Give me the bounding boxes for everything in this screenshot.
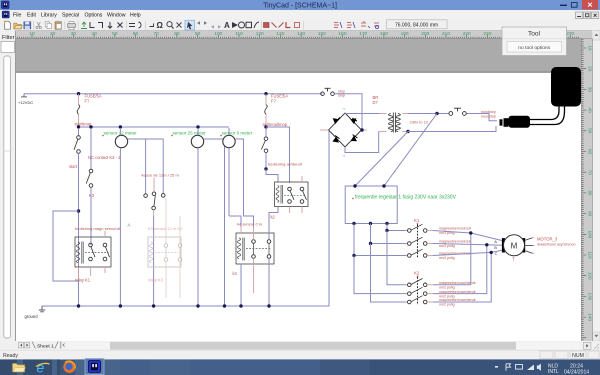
node k2 coil junction — [264, 167, 267, 170]
wire relay K1 coil loop — [53, 211, 79, 281]
fuse F? (left) — [77, 93, 102, 126]
switch K3 column — [86, 128, 95, 245]
wire bridge bottom loop to transformer — [345, 132, 379, 153]
svg-text:k4 sensor 0 m: k4 sensor 0 m — [237, 222, 263, 227]
stop push button — [321, 88, 345, 97]
taskbar — [0, 359, 600, 375]
svg-text:k2: k2 — [271, 215, 276, 220]
svg-text:+12VDC: +12VDC — [18, 100, 33, 105]
svg-text:Ω: Ω — [157, 21, 164, 30]
explorer icon — [13, 364, 25, 372]
svg-text:startknop: startknop — [75, 122, 93, 127]
wire noodstop to plug — [467, 114, 497, 121]
K1 contact row 1 — [406, 224, 471, 235]
svg-text:FUSE/5A: FUSE/5A — [85, 93, 102, 98]
svg-text:Help: Help — [130, 12, 141, 18]
wire column to K1 row1 — [387, 224, 406, 231]
svg-text:MOTOR_3: MOTOR_3 — [537, 236, 558, 241]
svg-text:10: 10 — [588, 45, 593, 51]
svg-text:Filter: Filter — [2, 35, 15, 41]
svg-text:60: 60 — [588, 149, 593, 155]
svg-text:70: 70 — [588, 170, 593, 176]
svg-text:FUSE/5A: FUSE/5A — [271, 93, 288, 98]
noodstop push button — [449, 108, 496, 118]
svg-text:76.000, 84.000 mm: 76.000, 84.000 mm — [395, 22, 438, 28]
sensor 12 meter — [102, 128, 163, 306]
cut — [37, 22, 40, 27]
vertical ruler — [581, 39, 593, 342]
svg-text:INTL: INTL — [548, 369, 559, 375]
wire top rail — [24, 93, 323, 95]
wire transformer to noodstop — [408, 113, 449, 115]
svg-text:TinyCad - [SCHEMA~1]: TinyCad - [SCHEMA~1] — [263, 3, 337, 10]
library icons — [334, 21, 379, 29]
svg-text:110: 110 — [588, 251, 593, 259]
node fuse2 top — [264, 92, 267, 95]
toolbar — [0, 20, 600, 31]
svg-text:M: M — [511, 241, 518, 250]
svg-text:NUM: NUM — [572, 353, 584, 359]
svg-text:om3 polig: om3 polig — [439, 244, 455, 248]
svg-text:K1: K1 — [414, 218, 420, 223]
svg-text:90: 90 — [588, 211, 593, 217]
node relay loop junction — [77, 209, 80, 212]
svg-text:C: C — [495, 251, 498, 256]
node achteruit junction — [264, 125, 267, 128]
svg-text:keuze de 12m / 25 m: keuze de 12m / 25 m — [142, 172, 180, 177]
ground bus — [42, 130, 329, 308]
sensor 25 meter — [171, 128, 224, 306]
open — [14, 23, 22, 29]
contactor K1 — [414, 218, 420, 259]
node secondary top — [435, 112, 438, 115]
switch achteruit — [261, 128, 268, 169]
svg-text:frequentie regelaar 1 fasig 23: frequentie regelaar 1 fasig 230V naar 3x… — [355, 194, 457, 200]
svg-text:50: 50 — [588, 128, 593, 134]
svg-text:om3 polig: om3 polig — [439, 256, 455, 260]
relay K1 — [75, 226, 121, 283]
wire branch to relay k2 right pin — [266, 127, 290, 183]
vertical scrollbar — [593, 31, 600, 342]
svg-text:130: 130 — [588, 293, 593, 301]
node secondary bottom — [406, 130, 409, 133]
svg-text:k4: k4 — [233, 271, 238, 276]
motor MOTOR_3 — [494, 235, 575, 262]
svg-text:A: A — [128, 223, 131, 228]
print — [68, 24, 76, 28]
node motor feed junctions — [469, 231, 472, 234]
svg-text:File: File — [13, 12, 21, 18]
frequentie regelaar box — [345, 184, 456, 225]
tray icons — [495, 366, 498, 368]
power adapter block — [551, 67, 581, 107]
svg-text:~: ~ — [343, 155, 346, 160]
Tool options floating panel — [502, 27, 567, 56]
svg-text:40: 40 — [588, 108, 593, 114]
svg-text:F?: F? — [271, 99, 277, 104]
svg-text:Window: Window — [107, 12, 126, 18]
svg-text:D?: D? — [373, 100, 379, 105]
node rail2 junctions — [77, 125, 80, 128]
svg-text:bediening magn servo/uit: bediening magn servo/uit — [75, 226, 121, 231]
title bar — [0, 0, 600, 10]
ground symbol — [25, 306, 46, 319]
wire column to K1 row2 — [371, 224, 407, 244]
relay K4 — [233, 222, 275, 306]
svg-text:sensor 0 meter: sensor 0 meter — [222, 130, 253, 135]
svg-text:20: 20 — [588, 66, 593, 72]
svg-text:noodstop: noodstop — [481, 114, 496, 118]
svg-text:magneetservocircuit: magneetservocircuit — [439, 227, 471, 231]
selected cursor tool — [185, 20, 195, 30]
svg-text:100: 100 — [588, 230, 593, 238]
wire bridge top to transformer — [345, 113, 379, 115]
left panel — [0, 31, 16, 342]
switch start (upper) — [74, 128, 80, 153]
svg-text:e: e — [37, 360, 45, 375]
svg-text:ground: ground — [25, 314, 39, 319]
wire stop to bridge — [334, 94, 362, 130]
svg-text:magneetservocircuit: magneetservocircuit — [439, 240, 471, 244]
save — [24, 22, 31, 29]
svg-text:Ready: Ready — [3, 353, 18, 359]
svg-text:Tool: Tool — [528, 31, 541, 38]
menu bar — [0, 10, 600, 20]
svg-text:230v to 12: 230v to 12 — [410, 120, 429, 125]
bridge rectifier BR — [320, 95, 378, 160]
svg-text:NC contact K3 - 1: NC contact K3 - 1 — [88, 155, 121, 160]
node K1 column branches — [385, 229, 388, 232]
wire diagonal A — [384, 114, 437, 187]
wire diagonal B — [355, 132, 408, 187]
relay K3 ghost — [148, 198, 183, 298]
wire tool — [90, 22, 95, 28]
svg-text:relay K3: relay K3 — [148, 278, 164, 283]
K1 contact row 3 — [406, 249, 471, 260]
svg-text:K2: K2 — [414, 271, 420, 276]
firefox icon — [63, 361, 75, 373]
svg-text:K3 sensor 12 m NC: K3 sensor 12 m NC — [148, 226, 183, 231]
svg-text:140: 140 — [588, 313, 593, 321]
K2 contact row 3 — [406, 296, 476, 307]
arrow down tool — [108, 22, 112, 28]
power symbol +12VDC — [18, 94, 33, 105]
svg-text:Special: Special — [62, 12, 79, 18]
svg-text:~: ~ — [343, 108, 346, 113]
svg-text:80: 80 — [588, 190, 593, 196]
svg-text:Sheet 1: Sheet 1 — [37, 343, 54, 349]
contactor K2 — [414, 271, 420, 306]
svg-text:30: 30 — [588, 87, 593, 93]
svg-text:Options: Options — [85, 12, 103, 18]
svg-text:F?: F? — [85, 99, 91, 104]
status bar — [0, 350, 600, 360]
sensor 0 meter — [220, 128, 253, 227]
wire into k2 coil — [266, 169, 278, 182]
K2 contact row 1 — [406, 279, 476, 290]
svg-text:start: start — [69, 164, 78, 169]
wire column to K1 row3 — [354, 224, 406, 256]
K1 contact row 2 — [406, 237, 471, 248]
fuse F? (achteruit) — [265, 93, 289, 126]
cable to adapter — [530, 107, 559, 120]
keuze selector — [142, 172, 180, 306]
copy — [45, 22, 49, 27]
wire rail 2 — [79, 126, 230, 128]
node fuse1 top — [77, 92, 80, 95]
svg-text:no tool options: no tool options — [518, 45, 550, 51]
svg-text:draaistroom asynchroon: draaistroom asynchroon — [537, 243, 576, 247]
svg-text:bediening achteruit: bediening achteruit — [268, 162, 303, 167]
svg-text:B: B — [494, 245, 497, 250]
svg-text:sensor 25 meter: sensor 25 meter — [173, 130, 207, 135]
svg-text:om2 polig: om2 polig — [439, 303, 455, 307]
wire return from plug — [408, 126, 496, 132]
power plug connector — [500, 116, 531, 128]
svg-text:Edit: Edit — [27, 12, 36, 18]
canvas background — [16, 39, 581, 342]
wire K1 outputs to motor — [433, 231, 502, 303]
svg-text:K3: K3 — [89, 193, 95, 198]
tinycad icon highlighted — [85, 359, 104, 375]
drawing sheet — [16, 73, 581, 342]
transformer 230v to 12 — [379, 113, 429, 133]
svg-text:120: 120 — [588, 272, 593, 280]
K2 contact row 2 — [406, 287, 476, 298]
wire k2 coil to bus — [269, 207, 278, 240]
svg-text:Library: Library — [41, 12, 57, 18]
zoom-extent icon — [81, 22, 87, 29]
relay K2 — [271, 176, 309, 220]
horizontal ruler — [16, 31, 592, 39]
svg-text:A: A — [224, 21, 230, 30]
svg-text:relay K1: relay K1 — [75, 278, 91, 283]
paste — [55, 22, 61, 29]
sheet tab + horizontal scrollbar row — [0, 341, 600, 351]
svg-text:T: T — [512, 257, 515, 262]
svg-text:04/24/2014: 04/24/2014 — [564, 369, 589, 375]
svg-text:A: A — [494, 239, 497, 244]
switch start (lower) — [78, 153, 80, 306]
new — [5, 21, 11, 29]
wire columns down to K2 — [387, 231, 406, 285]
